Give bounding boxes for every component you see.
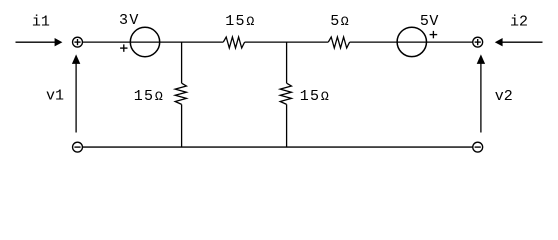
- svg-text:15Ω: 15Ω: [225, 13, 255, 30]
- svg-text:i1: i1: [32, 13, 50, 30]
- svg-text:15Ω: 15Ω: [300, 88, 330, 105]
- svg-text:3V: 3V: [119, 12, 140, 29]
- svg-text:15Ω: 15Ω: [134, 88, 164, 105]
- svg-text:v2: v2: [495, 88, 513, 105]
- svg-text:i2: i2: [510, 13, 528, 30]
- svg-text:5V: 5V: [420, 13, 439, 30]
- svg-text:v1: v1: [46, 88, 64, 105]
